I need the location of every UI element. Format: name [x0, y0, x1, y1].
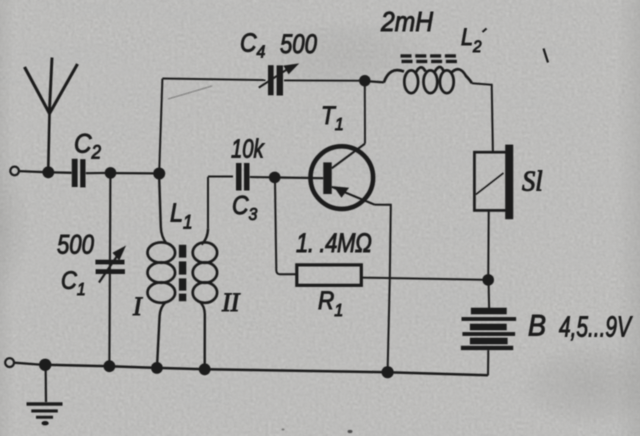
ground: [27, 365, 63, 425]
node A junction: [42, 166, 54, 178]
inductor L2: [370, 54, 472, 93]
coil humps and loops: [384, 70, 404, 82]
winding II bottom wire: [200, 302, 205, 365]
wire node B to node C: [116, 172, 154, 174]
faint scratch near top wire: [168, 86, 212, 99]
wire node A to C2: [53, 171, 72, 174]
arrow of variable capacitor C1: [99, 253, 120, 283]
core of L2 (dashed): [401, 54, 457, 63]
wire node B down to C1 and bottom rail: [109, 178, 110, 361]
winding I loops: [148, 242, 176, 262]
node J junction (base node): [269, 172, 281, 184]
node E junction (L1-I to rail): [151, 362, 163, 374]
svg-text:10k: 10k: [231, 134, 265, 163]
svg-text:500: 500: [57, 231, 94, 261]
svg-text:Sl: Sl: [522, 166, 543, 197]
wire collector to node H: [364, 86, 366, 144]
svg-text:4,5...9V: 4,5...9V: [559, 311, 633, 343]
wire C3 to node J: [250, 176, 270, 178]
wire node I to battery: [488, 284, 491, 308]
battery B: [461, 284, 516, 375]
svg-text:2mH: 2mH: [380, 6, 434, 38]
base bar: [323, 162, 331, 194]
top wire right segment to node H: [284, 79, 360, 81]
stray mark top right: [544, 49, 549, 63]
emitter line: [332, 187, 375, 205]
capacitor C1 (variable): [95, 260, 124, 274]
winding II top wire: [202, 229, 209, 245]
arrow of variable capacitor C4: [259, 68, 290, 88]
capacitor C4 (variable trimmer): [268, 65, 283, 95]
terminal (antenna input): [10, 167, 19, 176]
wire speaker to node I: [487, 211, 489, 275]
wire base to node J: [280, 176, 323, 179]
svg-text:I: I: [132, 292, 143, 321]
capacitor C2: [72, 159, 86, 188]
collector line: [332, 144, 365, 169]
node I junction: [482, 274, 494, 286]
winding I wire from node C: [159, 178, 166, 244]
tick after L2: [483, 29, 487, 33]
node H junction: [359, 75, 370, 86]
antenna: [25, 58, 78, 172]
ground junction: [39, 359, 51, 371]
wire terminal to ground junction: [14, 363, 40, 365]
wire terminal to node A: [19, 171, 44, 172]
svg-text:B: B: [528, 309, 546, 343]
wire node J down to R1: [275, 182, 297, 274]
entry wire from node H: [370, 81, 384, 82]
emitter arrow: [334, 186, 350, 198]
capacitor C3: [236, 163, 250, 191]
paper speck: [348, 430, 353, 433]
node D junction (C1 to rail): [104, 360, 116, 372]
svg-text:500: 500: [280, 30, 317, 60]
wire C3 corner from winding II: [207, 177, 209, 229]
core of L1: [179, 245, 186, 301]
wire C2 to node B: [86, 172, 106, 174]
speaker Sl: [474, 145, 513, 220]
transformer L1: [148, 178, 218, 364]
node B junction: [105, 167, 117, 179]
winding I bottom wire: [157, 302, 166, 363]
terminal (ground input): [5, 358, 14, 367]
wire node C up to top wire: [159, 79, 162, 169]
svg-text:1. .4MΩ: 1. .4MΩ: [296, 229, 371, 259]
top wire left segment to C4: [162, 79, 265, 81]
transistor T1: [311, 144, 375, 209]
resistor R1: [297, 265, 362, 285]
node C junction: [153, 168, 165, 180]
bottom rail wire: [45, 365, 488, 376]
node F junction (L1-II to rail): [199, 363, 211, 375]
wire battery to bottom rail: [487, 350, 489, 375]
winding II loops: [193, 242, 217, 262]
wire R1 to node I (battery top): [361, 278, 483, 280]
wire L2 to speaker: [472, 83, 493, 152]
svg-text:II: II: [221, 288, 241, 317]
paper speck: [282, 428, 285, 430]
node G junction (emitter to rail): [382, 366, 394, 378]
wire emitter to node G: [375, 205, 391, 367]
